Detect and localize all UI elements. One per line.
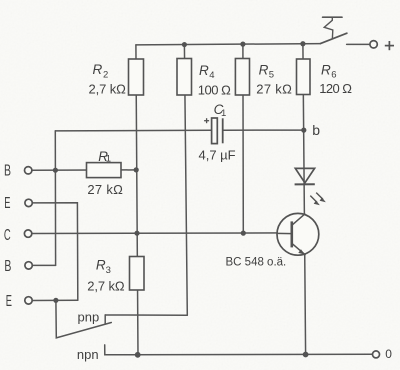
svg-text:27 kΩ: 27 kΩ bbox=[87, 182, 123, 197]
svg-text:100 Ω: 100 Ω bbox=[198, 82, 231, 97]
svg-text:1: 1 bbox=[106, 154, 111, 165]
svg-text:R: R bbox=[96, 258, 106, 273]
svg-text:R: R bbox=[199, 63, 209, 78]
svg-text:4: 4 bbox=[209, 70, 214, 81]
svg-text:BC 548 o.ä.: BC 548 o.ä. bbox=[226, 257, 287, 269]
svg-text:R: R bbox=[93, 62, 103, 77]
svg-text:2: 2 bbox=[103, 70, 108, 81]
svg-text:5: 5 bbox=[269, 70, 274, 81]
svg-text:pnp: pnp bbox=[78, 310, 100, 325]
svg-text:0: 0 bbox=[385, 347, 392, 361]
svg-text:120 Ω: 120 Ω bbox=[319, 81, 352, 96]
svg-text:B: B bbox=[4, 163, 11, 180]
svg-text:E: E bbox=[4, 195, 10, 212]
svg-text:b: b bbox=[312, 122, 320, 138]
svg-text:2,7 kΩ: 2,7 kΩ bbox=[87, 279, 125, 294]
svg-text:4,7 µF: 4,7 µF bbox=[199, 147, 236, 162]
svg-text:npn: npn bbox=[77, 347, 99, 362]
svg-text:2,7 kΩ: 2,7 kΩ bbox=[89, 82, 127, 97]
svg-text:6: 6 bbox=[331, 70, 336, 81]
svg-text:R: R bbox=[259, 62, 269, 77]
svg-text:C: C bbox=[4, 227, 11, 244]
svg-text:R: R bbox=[321, 62, 331, 77]
svg-text:B: B bbox=[4, 258, 11, 275]
svg-text:1: 1 bbox=[221, 108, 226, 119]
svg-text:3: 3 bbox=[106, 265, 111, 276]
svg-text:27 kΩ: 27 kΩ bbox=[256, 81, 292, 96]
svg-text:E: E bbox=[6, 293, 12, 310]
